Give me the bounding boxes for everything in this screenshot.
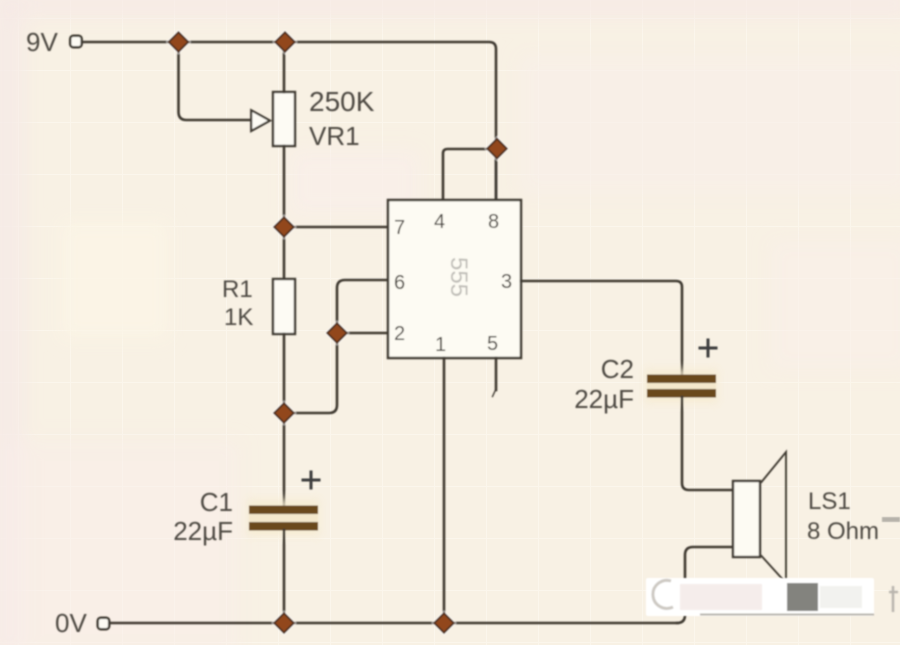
svg-text:R1: R1 <box>222 276 253 303</box>
svg-text:2: 2 <box>394 323 405 345</box>
svg-text:22µF: 22µF <box>173 516 233 546</box>
svg-text:C2: C2 <box>601 354 634 384</box>
svg-text:555: 555 <box>445 257 472 297</box>
watermark <box>646 578 898 616</box>
wire speaker to ground rail <box>677 547 733 623</box>
junction R1 bottom node <box>271 400 296 425</box>
wire pin 5 stub <box>495 358 498 390</box>
svg-text:8: 8 <box>488 211 499 233</box>
wire pin 3 to C2 <box>521 281 682 375</box>
potentiometer wiper arrow <box>251 110 270 131</box>
svg-text:LS1: LS1 <box>808 488 851 515</box>
capacitor C1 <box>247 499 320 536</box>
resistor R1 <box>273 279 295 334</box>
svg-text:0V: 0V <box>55 608 87 638</box>
polarity + C1 <box>303 472 319 488</box>
wire wiper <box>179 44 252 120</box>
junction pin 8 node <box>484 136 509 161</box>
svg-text:3: 3 <box>501 271 512 293</box>
wire R1 bottom <box>283 334 286 413</box>
wire pin 7 connection <box>284 226 388 229</box>
junction wiper tap <box>166 29 191 54</box>
wire top rail <box>83 42 496 200</box>
wire C2 to speaker <box>682 397 733 490</box>
wire VR1 top <box>283 42 286 92</box>
wire C1 bottom <box>283 530 286 623</box>
wire pin 2 stub <box>337 332 388 335</box>
svg-text:4: 4 <box>434 211 445 233</box>
faint dash right edge <box>882 517 900 522</box>
svg-text:C1: C1 <box>200 487 233 517</box>
wire pin 6 branch <box>284 280 388 413</box>
junction pin 1 ground <box>431 610 456 635</box>
wire pin 4 branch <box>443 149 497 200</box>
junction pin 7 node <box>271 214 296 239</box>
svg-text:VR1: VR1 <box>309 121 360 151</box>
capacitor C2 <box>645 369 718 403</box>
svg-text:1K: 1K <box>224 304 253 331</box>
wire C1 top <box>283 413 286 505</box>
potentiometer VR1 <box>273 92 295 146</box>
wire R1 top <box>283 227 286 279</box>
svg-text:22µF: 22µF <box>574 384 634 414</box>
svg-text:7: 7 <box>394 217 405 239</box>
polarity + C2 <box>700 340 716 356</box>
wire VR1 bottom <box>283 146 286 227</box>
wire pin 1 to ground <box>443 358 446 623</box>
junction pin 2/6 node <box>324 320 349 345</box>
svg-text:9V: 9V <box>26 27 58 57</box>
svg-text:6: 6 <box>394 272 405 294</box>
wire pin 8 drop <box>495 148 498 200</box>
junction VR1 top <box>272 29 297 54</box>
node 9V <box>26 27 82 57</box>
speaker LS1 <box>733 452 786 583</box>
svg-text:5: 5 <box>487 333 498 355</box>
svg-text:250K: 250K <box>309 86 375 117</box>
svg-text:1: 1 <box>435 334 446 356</box>
op-amp/timer IC 555 <box>388 200 521 358</box>
wire bottom rail <box>110 622 678 625</box>
svg-text:8 Ohm: 8 Ohm <box>807 518 879 545</box>
junction C1 ground <box>271 610 296 635</box>
node 0V <box>55 608 109 638</box>
